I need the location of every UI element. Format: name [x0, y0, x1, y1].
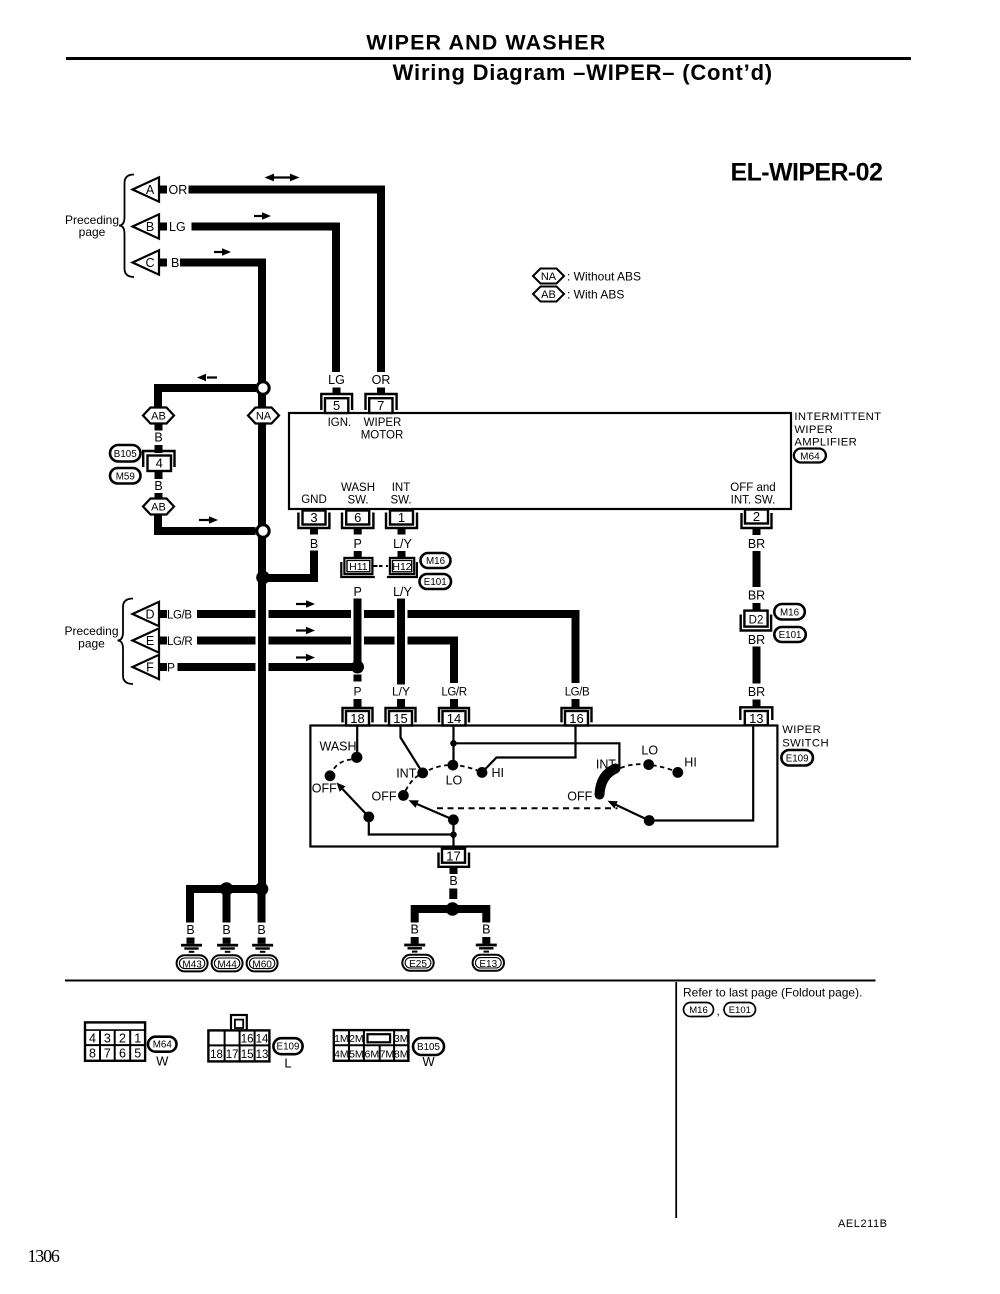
stub after triangle B: [160, 223, 168, 231]
connector grid E109: [208, 1030, 269, 1061]
svg-text:BR: BR: [748, 685, 765, 699]
oval M16 (at H12): [421, 553, 451, 568]
wire below M60 dot: [258, 893, 266, 923]
svg-text:B105: B105: [417, 1042, 440, 1053]
svg-text:6: 6: [119, 1047, 126, 1061]
svg-text:WIPER: WIPER: [782, 724, 821, 736]
label GND: [301, 494, 327, 506]
svg-text:4M: 4M: [334, 1048, 349, 1060]
svg-text:BR: BR: [748, 537, 765, 551]
svg-text:L/Y: L/Y: [392, 685, 410, 699]
svg-text:2M: 2M: [349, 1033, 364, 1045]
wiper switch box E109: [310, 726, 777, 847]
svg-text:5M: 5M: [349, 1048, 364, 1060]
stub below terminal 1: [398, 528, 406, 535]
oval B105 (footer): [413, 1038, 444, 1055]
svg-text:NA: NA: [541, 271, 557, 283]
svg-text:13: 13: [749, 711, 763, 726]
pivot dot (right lever): [644, 815, 655, 826]
svg-text:E: E: [146, 634, 154, 648]
svg-text:P: P: [354, 585, 362, 599]
stub above terminal 15: [397, 699, 405, 708]
svg-text:EL-WIPER-02: EL-WIPER-02: [731, 159, 883, 187]
connector triangle F: [133, 655, 160, 679]
svg-text:7M: 7M: [380, 1048, 395, 1060]
stub below AB hexagon: [155, 424, 163, 431]
svg-text:P: P: [167, 661, 175, 675]
stub below terminal 2: [753, 528, 761, 535]
terminal 7 (WIPER MOTOR): [366, 394, 397, 413]
label B (detour lower): [154, 479, 162, 493]
label P (below H11): [354, 585, 362, 599]
svg-text:OFF: OFF: [567, 790, 592, 804]
wash lever arm with arrow: [337, 783, 369, 817]
label L/Y (below H12): [393, 585, 412, 599]
wire A (OR) to terminal 7: [189, 190, 382, 373]
bottom separator line: [65, 980, 876, 982]
stub above H11: [354, 551, 362, 558]
comma between footer ovals: [717, 1004, 720, 1018]
oval E101 (footer): [724, 1003, 756, 1017]
svg-text:16: 16: [569, 711, 583, 726]
contact dot HI (left): [477, 767, 488, 778]
svg-text:W: W: [156, 1054, 169, 1069]
label LO (left): [446, 774, 463, 788]
stub above terminal 13: [753, 700, 761, 708]
label L (E109 color): [284, 1056, 291, 1071]
junction dot on main wire: [256, 571, 270, 585]
svg-text:6M: 6M: [365, 1048, 380, 1060]
svg-text:14: 14: [447, 711, 461, 726]
link wire pivot to terminal 17 node: [369, 817, 454, 835]
svg-text:page: page: [79, 225, 106, 239]
svg-text:GND: GND: [301, 494, 327, 506]
stub below connector 4: [155, 471, 163, 479]
svg-text:: With ABS: : With ABS: [567, 288, 624, 302]
svg-text:INT. SW.: INT. SW.: [731, 494, 776, 506]
svg-text:E109: E109: [277, 1042, 300, 1053]
svg-text:W: W: [422, 1054, 435, 1069]
oval M64: [794, 449, 826, 463]
oval E109 (footer): [273, 1038, 302, 1054]
arrow on wire B: [254, 212, 271, 220]
legend text Without ABS: [567, 270, 641, 284]
svg-text:LG/R: LG/R: [441, 687, 466, 699]
arrow on wire C: [214, 248, 231, 256]
label OFF (left int side): [372, 790, 397, 804]
oval M16 (at D2): [774, 604, 805, 620]
svg-text:8: 8: [89, 1047, 96, 1061]
svg-text:14: 14: [256, 1034, 269, 1046]
svg-text:LG/R: LG/R: [167, 636, 192, 648]
svg-text:18: 18: [350, 711, 364, 726]
page title WIPER AND WASHER: [366, 31, 606, 55]
junction dot M44: [220, 882, 234, 896]
oval M43: [177, 955, 208, 971]
preceding page label (top): [65, 213, 119, 239]
brace (bottom preceding page): [118, 599, 134, 685]
oval E101 (at H12): [420, 574, 452, 589]
stub above M44 ground: [223, 938, 231, 944]
label INT SW.: [390, 482, 411, 506]
svg-text:E25: E25: [409, 959, 427, 970]
wire B below 17: [449, 889, 457, 900]
contact dot WASH: [351, 752, 362, 763]
svg-text:WASH: WASH: [341, 482, 375, 494]
left INT lever arm with arrow: [409, 800, 454, 820]
terminal 16: [562, 708, 592, 726]
legend hexagon NA: [533, 269, 564, 284]
svg-text:15: 15: [393, 711, 407, 726]
svg-text:M44: M44: [217, 959, 237, 970]
terminal 17: [439, 849, 470, 867]
contact dot HI (right): [672, 767, 683, 778]
svg-text:5: 5: [333, 398, 340, 413]
oval M44: [212, 955, 243, 971]
stub above terminal 18: [354, 699, 362, 708]
label LG/B (wire D): [167, 610, 192, 622]
terminal 14: [439, 708, 469, 726]
terminal 2 (OFF and INT. SW.): [742, 509, 772, 528]
stub after triangle F: [160, 663, 168, 671]
svg-text:SWITCH: SWITCH: [782, 738, 829, 750]
svg-text:LG: LG: [328, 373, 345, 387]
stub above H12: [398, 551, 406, 558]
stub above M60 ground: [258, 938, 266, 944]
connector triangle A: [133, 177, 160, 201]
svg-text:MOTOR: MOTOR: [361, 429, 404, 441]
hexagon AB (upper, detour): [143, 408, 174, 424]
connector grid B105: [334, 1030, 409, 1061]
oval E13: [473, 955, 504, 971]
svg-text:6: 6: [354, 510, 361, 525]
svg-text:C: C: [145, 256, 154, 270]
wire mini dot to terminal 17: [452, 835, 454, 848]
svg-text:B: B: [411, 923, 419, 937]
svg-text:B: B: [482, 923, 490, 937]
label OR (wire A): [169, 183, 188, 197]
svg-text:M16: M16: [780, 607, 800, 618]
svg-text:WASH: WASH: [320, 740, 357, 754]
oval E25: [402, 955, 433, 971]
title underline rule: [66, 57, 911, 60]
svg-text:1306: 1306: [28, 1246, 60, 1266]
preceding page label (bottom): [64, 624, 118, 651]
svg-text:3M: 3M: [394, 1033, 409, 1045]
svg-text:3: 3: [104, 1031, 111, 1045]
wire C (B) horizontal: [180, 259, 266, 267]
stub below D2 labels: [753, 647, 761, 653]
ground symbol M60: [252, 944, 273, 953]
wire B (LG) to terminal 5: [192, 227, 337, 373]
arrow (right) on lower detour wire: [199, 516, 218, 524]
stub below P junction: [354, 675, 362, 682]
footer vertical divider: [675, 982, 677, 1218]
contact dot OFF (wash side): [325, 770, 336, 781]
svg-text:WIPER: WIPER: [794, 424, 833, 436]
terminal 3 (GND): [298, 510, 329, 528]
switch line 15 to INT contact: [401, 726, 423, 773]
svg-text:B: B: [310, 537, 318, 551]
stub after triangle D: [160, 610, 168, 618]
svg-text:17: 17: [226, 1049, 239, 1061]
ground symbol E25: [404, 944, 425, 953]
wire L/Y vertical (H12 to terminal 15): [397, 599, 405, 685]
wire E (LG/R) segments to terminal 14: [197, 641, 454, 684]
switch line HI to terminal 16: [482, 726, 576, 773]
hexagon AB (lower, detour): [143, 499, 174, 515]
thick lever INT-OFF (right): [600, 769, 616, 795]
svg-text:B: B: [154, 479, 162, 493]
svg-text:HI: HI: [492, 766, 505, 780]
svg-text:M16: M16: [689, 1005, 707, 1016]
svg-text:,: ,: [717, 1004, 720, 1018]
switch line 14 to LO contact: [452, 726, 454, 766]
svg-text:SW.: SW.: [390, 494, 411, 506]
wire BR lower segment: [753, 653, 761, 684]
stub above terminal 7: [377, 388, 385, 395]
label B (detour upper): [154, 431, 162, 445]
dashed arc WASH to OFF: [333, 760, 352, 771]
svg-text:INT: INT: [392, 482, 411, 494]
intermittent wiper amplifier box M64: [289, 413, 791, 509]
wire F (P) segments to junction: [178, 663, 358, 671]
arrow on wire E: [296, 627, 315, 635]
contact dot LO (right): [643, 759, 654, 770]
svg-text:5: 5: [134, 1047, 141, 1061]
svg-text:Wiring Diagram –WIPER– (Cont’d: Wiring Diagram –WIPER– (Cont’d): [393, 60, 773, 85]
branch line to right INT lever: [454, 743, 620, 769]
wire GND B to junction dot: [263, 551, 314, 579]
svg-text:B: B: [449, 874, 457, 888]
svg-text:15: 15: [241, 1049, 254, 1061]
hexagon NA on main wire: [248, 408, 279, 424]
label OR at terminal 7: [372, 373, 391, 387]
svg-text:AMPLIFIER: AMPLIFIER: [794, 436, 857, 448]
right lever arm with arrow: [608, 801, 650, 821]
junction mini dot below 14: [450, 740, 457, 747]
svg-text:F: F: [146, 661, 154, 675]
stub above E25 ground: [411, 937, 419, 944]
oval E101 (at D2): [774, 627, 806, 642]
subtitle Wiring Diagram -WIPER- (Cont'd): [393, 60, 773, 85]
contact dot INT (left): [417, 768, 428, 779]
label LG/R (above terminal 14): [441, 687, 466, 699]
svg-text:B: B: [154, 431, 162, 445]
svg-text:H12: H12: [392, 561, 411, 573]
junction circle (upper): [257, 382, 269, 394]
label HI (right): [684, 756, 697, 770]
footer note Refer to last page: [683, 986, 862, 1000]
label LG (wire B): [169, 220, 186, 234]
pivot dot (left INT lever): [448, 814, 459, 825]
svg-text:E13: E13: [479, 959, 497, 970]
junction dot wire F / P: [351, 661, 364, 674]
label OFF (wash side): [312, 782, 337, 796]
svg-text:INT: INT: [396, 767, 417, 781]
switch line 18 to WASH contact: [356, 726, 358, 756]
svg-text:OR: OR: [169, 183, 188, 197]
svg-text:18: 18: [210, 1049, 223, 1061]
brace (top preceding page): [119, 175, 134, 278]
svg-text:OFF: OFF: [312, 782, 337, 796]
svg-text:E101: E101: [779, 630, 802, 641]
label B (below 17): [449, 874, 457, 888]
svg-text:B105: B105: [114, 449, 137, 460]
label INTERMITTENT WIPER AMPLIFIER: [794, 411, 881, 449]
label BR (4): [748, 685, 765, 699]
svg-text:P: P: [353, 685, 361, 699]
label L/Y (above terminal 15): [392, 685, 410, 699]
ground symbol M44: [217, 944, 238, 953]
oval M64 (footer): [148, 1037, 177, 1052]
stub above D2: [753, 603, 761, 611]
svg-text:B: B: [257, 923, 265, 937]
junction mini dot above terminal 17: [450, 831, 457, 838]
terminal 6 (WASH SW.): [342, 510, 373, 528]
svg-text:M43: M43: [182, 959, 202, 970]
svg-text:17: 17: [446, 849, 460, 864]
svg-text:2: 2: [753, 509, 760, 524]
wire AB detour to circle2: [158, 514, 256, 531]
svg-text:7: 7: [377, 398, 384, 413]
stub above M43 ground: [187, 938, 195, 944]
svg-text:4: 4: [89, 1031, 96, 1045]
label B (wire C): [171, 256, 179, 270]
connector H11: [341, 558, 375, 577]
terminal 5 (IGN.): [321, 394, 352, 413]
arrow on wire F: [296, 654, 315, 662]
svg-text:INTERMITTENT: INTERMITTENT: [794, 411, 881, 423]
label BR (3): [748, 633, 765, 647]
stub above terminal 5: [333, 388, 341, 395]
label B (M44): [222, 923, 230, 937]
oval B105: [110, 445, 141, 462]
label P (wire F): [167, 661, 175, 675]
connector triangle C: [133, 250, 160, 274]
oval M16 (footer): [684, 1003, 714, 1017]
label B (E13): [482, 923, 490, 937]
svg-text:13: 13: [256, 1049, 269, 1061]
svg-text:L: L: [284, 1056, 291, 1071]
svg-text:M64: M64: [800, 451, 820, 462]
svg-text:OFF: OFF: [372, 790, 397, 804]
label LO (right): [641, 744, 658, 758]
svg-text:: Without ABS: : Without ABS: [567, 270, 641, 284]
drawing number AEL211B: [838, 1218, 888, 1230]
svg-text:E101: E101: [729, 1005, 751, 1016]
stub above terminal 14: [450, 699, 458, 708]
label L/Y (above H12): [393, 537, 412, 551]
svg-text:P: P: [354, 537, 362, 551]
wire BR upper segment: [753, 551, 761, 587]
svg-text:SW.: SW.: [347, 494, 368, 506]
svg-text:OR: OR: [372, 373, 391, 387]
svg-text:AB: AB: [541, 289, 556, 301]
svg-text:BR: BR: [748, 633, 765, 647]
svg-text:D: D: [145, 608, 154, 622]
svg-text:16: 16: [241, 1034, 254, 1046]
double arrow on wire A: [265, 174, 300, 182]
legend hexagon AB: [533, 287, 564, 302]
contact dot OFF (left int side): [398, 790, 409, 801]
diagram id EL-WIPER-02: [731, 159, 883, 187]
svg-text:M59: M59: [116, 471, 135, 482]
stub above terminal 16: [572, 699, 580, 708]
svg-text:E101: E101: [424, 577, 447, 588]
terminal 18: [343, 708, 373, 726]
main vertical wire B (from C): [258, 263, 266, 890]
svg-text:LG/B: LG/B: [167, 610, 192, 622]
wire branch circle1 to AB detour: [158, 388, 256, 410]
stub below terminal 6: [354, 528, 362, 535]
pivot dot (wash lever): [363, 812, 374, 823]
label WIPER MOTOR: [361, 417, 404, 442]
svg-text:B: B: [171, 256, 179, 270]
connector D2: [741, 611, 771, 631]
svg-text:B: B: [222, 923, 230, 937]
connector H12: [387, 558, 417, 577]
label LG at terminal 5: [328, 373, 345, 387]
svg-text:BR: BR: [748, 589, 765, 603]
svg-text:LO: LO: [641, 744, 658, 758]
label LG/B (above terminal 16): [565, 687, 590, 699]
svg-text:HI: HI: [684, 756, 697, 770]
label INT (left): [396, 767, 417, 781]
svg-text:AEL211B: AEL211B: [838, 1218, 888, 1230]
svg-text:B: B: [146, 220, 154, 234]
dashed arc OFF-INT-LO-HI (left): [406, 765, 480, 791]
label LG/R (wire E): [167, 636, 192, 648]
oval M59: [110, 468, 141, 484]
svg-text:LG/B: LG/B: [565, 687, 590, 699]
terminal 13: [740, 707, 772, 726]
svg-text:M64: M64: [153, 1040, 173, 1051]
oval M60: [247, 955, 278, 971]
stub after triangle C: [160, 259, 168, 267]
stub above connector 4: [155, 445, 163, 453]
wire P vertical (H11 to junction): [354, 599, 362, 668]
terminal 15: [386, 708, 416, 726]
svg-text:B: B: [186, 923, 194, 937]
wire D (LG/B) segments to terminal 16: [197, 614, 576, 683]
label W (B105 color): [422, 1054, 435, 1069]
stub after triangle A: [160, 186, 168, 194]
svg-text:7: 7: [104, 1047, 111, 1061]
terminal 1 (INT SW.): [386, 510, 417, 528]
label P (above H11): [354, 537, 362, 551]
svg-text:L/Y: L/Y: [393, 585, 412, 599]
link wire mini dot to pivot dot 2: [452, 820, 454, 835]
label B (M60): [257, 923, 265, 937]
junction dot main wire bottom: [255, 882, 269, 896]
svg-text:LO: LO: [446, 774, 463, 788]
label WIPER SWITCH: [782, 724, 829, 750]
label OFF (right): [567, 790, 592, 804]
connector triangle B: [133, 214, 160, 238]
label P (above terminal 18): [353, 685, 361, 699]
label WASH SW.: [341, 482, 375, 506]
ground symbol E13: [476, 944, 497, 953]
connector triangle D: [133, 602, 160, 626]
svg-text:1: 1: [134, 1031, 141, 1045]
svg-text:1M: 1M: [334, 1033, 349, 1045]
dashed arc lever-LO-HI (right): [621, 764, 676, 771]
connector triangle E: [133, 628, 160, 652]
svg-text:NA: NA: [256, 411, 272, 423]
svg-text:page: page: [78, 637, 105, 651]
page number 1306: [28, 1246, 60, 1266]
